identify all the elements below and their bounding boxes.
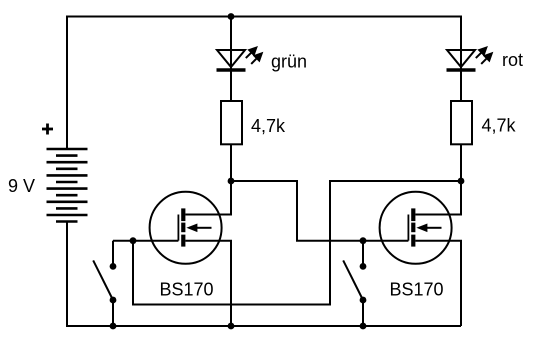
T2 gate electrode <box>407 215 409 241</box>
wire battery negative to bottom rail <box>67 222 461 327</box>
resistor R1 4,7k <box>221 101 242 144</box>
switch S1 <box>93 241 116 326</box>
T1 source lead <box>185 241 231 326</box>
wire resistor R1 to drain node <box>230 144 232 181</box>
wire gate T1 to cross-coupling down <box>133 181 461 305</box>
LED D2 rot <box>447 48 492 70</box>
svg-text:BS170: BS170 <box>390 280 444 300</box>
svg-text:9 V: 9 V <box>8 176 35 196</box>
T1 channel segments <box>181 208 185 246</box>
MOSFET T1 BS170 <box>113 181 231 326</box>
T2 channel segments <box>411 208 415 246</box>
battery plus sign <box>42 124 53 135</box>
resistor R2 4,7k <box>451 101 472 144</box>
MOSFET T2 BS170 <box>380 181 461 326</box>
node top rail junction <box>228 13 235 20</box>
wire drain T1 to gate T2 cross-coupling <box>231 181 408 241</box>
battery B1 9V <box>47 149 88 222</box>
wire right branch from rail corner to resistor <box>460 144 462 181</box>
node S1 to bottom rail <box>110 323 117 330</box>
T1 drain lead <box>185 181 231 215</box>
node S2 to bottom rail <box>360 323 367 330</box>
node gate T1 <box>130 237 137 244</box>
LED D1 gruen <box>217 48 262 70</box>
T2 drain lead <box>415 181 461 215</box>
T2 substrate arrow <box>426 227 442 229</box>
svg-text:4,7k: 4,7k <box>251 116 286 136</box>
svg-text:grün: grün <box>271 52 307 72</box>
node drain T2 <box>458 178 465 185</box>
switch S2 <box>343 241 366 326</box>
T1 gate lead <box>113 240 178 242</box>
svg-text:4,7k: 4,7k <box>482 116 517 136</box>
node gate T2 <box>360 237 367 244</box>
node drain T1 <box>228 178 235 185</box>
wire left branch from rail to resistor <box>230 17 232 102</box>
T1 gate electrode <box>177 215 179 241</box>
svg-text:BS170: BS170 <box>160 280 214 300</box>
node source T1 bottom rail <box>228 323 235 330</box>
T1 substrate arrow <box>196 227 212 229</box>
wire top rail V+ <box>67 17 461 150</box>
T2 source lead <box>415 241 461 326</box>
svg-text:rot: rot <box>502 50 523 70</box>
